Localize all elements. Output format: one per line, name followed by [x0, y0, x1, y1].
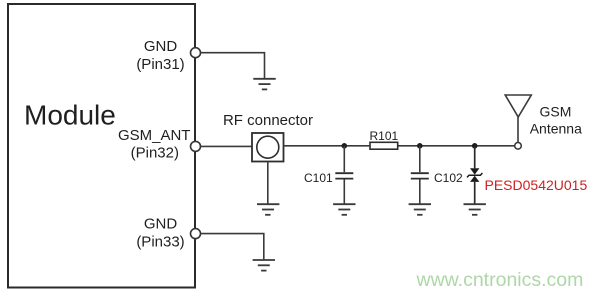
ground symbol (C101)	[333, 204, 355, 215]
node junction at TVS diode	[472, 143, 478, 149]
wire pin32 to RF connector	[201, 145, 253, 147]
ground symbol (pin33)	[253, 260, 275, 271]
pin 33 node circle	[191, 229, 201, 239]
antenna node circle	[515, 143, 522, 150]
antenna label	[530, 104, 582, 137]
resistor R101	[370, 142, 398, 149]
svg-text:www.cntronics.com: www.cntronics.com	[416, 269, 584, 291]
ground symbol (C102)	[409, 204, 431, 215]
pin 31 node circle	[191, 48, 201, 58]
wire pin33 to ground	[201, 234, 264, 260]
wire C101 to ground	[343, 179, 345, 203]
svg-text:(Pin31): (Pin31)	[136, 56, 184, 73]
ground symbol (RF connector)	[257, 204, 279, 215]
node junction at C101	[342, 143, 348, 149]
svg-text:Module: Module	[24, 100, 116, 131]
wire antenna node to antenna	[517, 117, 519, 143]
RF connector J1	[252, 133, 284, 162]
wire node to C102	[419, 146, 421, 172]
wire node to TVS diode	[474, 146, 476, 169]
svg-text:GSM: GSM	[540, 104, 572, 120]
pin 33 label GND (Pin33)	[136, 216, 184, 251]
node junction at C102	[417, 143, 423, 149]
pin 31 label GND (Pin31)	[136, 38, 184, 73]
svg-text:(Pin32): (Pin32)	[131, 145, 179, 162]
antenna ANT1 (GSM antenna symbol)	[505, 95, 531, 117]
wire TVS diode to ground	[474, 182, 476, 204]
wire node to C101	[343, 146, 345, 172]
wire pin31 to ground	[201, 53, 265, 78]
capacitor C101	[335, 173, 353, 178]
svg-text:R101: R101	[370, 129, 399, 143]
svg-text:GND: GND	[144, 38, 178, 55]
ground symbol (pin31)	[253, 79, 275, 90]
svg-text:GSM_ANT: GSM_ANT	[118, 127, 191, 144]
svg-text:RF connector: RF connector	[223, 112, 313, 129]
svg-text:Antenna: Antenna	[530, 121, 582, 137]
svg-text:(Pin33): (Pin33)	[136, 234, 184, 251]
capacitor C102	[411, 173, 429, 178]
wire main RF line	[284, 145, 515, 147]
svg-text:PESD0542U015: PESD0542U015	[485, 177, 588, 193]
module block U (GSM module)	[8, 4, 195, 288]
TVS diode D (PESD0542U015)	[467, 168, 482, 182]
pin 32 label GSM_ANT (Pin32)	[118, 127, 191, 162]
svg-text:C102: C102	[434, 171, 463, 185]
svg-text:C101: C101	[304, 171, 333, 185]
wire RF connector to ground	[267, 162, 269, 204]
ground symbol (TVS)	[464, 204, 486, 215]
pin 32 node circle	[191, 141, 201, 151]
svg-text:GND: GND	[144, 216, 178, 233]
wire C102 to ground	[419, 179, 421, 203]
